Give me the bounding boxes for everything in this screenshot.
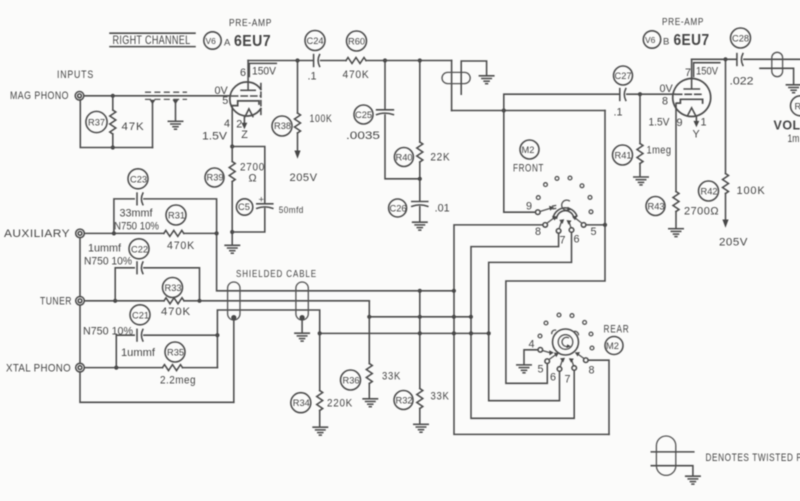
node C21 right: [215, 333, 219, 337]
capacitor C24 .1: [305, 31, 325, 83]
svg-text:R41: R41: [615, 151, 632, 161]
svg-text:33K: 33K: [382, 371, 401, 383]
resistor R42 100K to 205V: [699, 59, 766, 248]
label 1.5V pin9: [649, 117, 683, 130]
svg-text:7: 7: [565, 374, 571, 386]
tube V6A cathode: [232, 101, 259, 106]
svg-text:100K: 100K: [310, 113, 333, 125]
svg-text:5: 5: [538, 364, 544, 376]
switch M2 REAR label: [604, 324, 630, 355]
svg-text:R38: R38: [274, 121, 291, 131]
node FRONT-5: [603, 223, 607, 227]
svg-text:REAR: REAR: [604, 324, 630, 336]
switch M2 REAR terminal 7: [565, 358, 577, 385]
node tuner step: [367, 315, 371, 319]
ground (R41): [634, 177, 648, 185]
capacitor C23 33mmf: [114, 169, 217, 234]
svg-text:470K: 470K: [343, 69, 370, 81]
svg-text:C23: C23: [130, 174, 147, 184]
resistor R36 33K: [341, 317, 402, 399]
switch M2 REAR terminal 5: [538, 353, 560, 376]
wire REAR-4 to ground: [524, 350, 538, 365]
label pin6 150V: [240, 63, 277, 79]
wire REAR-8 riser: [588, 360, 609, 434]
svg-text:R36: R36: [343, 376, 360, 386]
node R37 bottom: [111, 145, 115, 149]
svg-text:AUXILIARY: AUXILIARY: [4, 228, 70, 240]
svg-text:2700Ω: 2700Ω: [684, 206, 719, 218]
svg-text:C26: C26: [390, 204, 407, 214]
svg-text:R37: R37: [88, 118, 105, 128]
label PRE-AMP (V6B): [643, 16, 709, 49]
svg-text:V6: V6: [645, 35, 656, 45]
wire C27 feed: [504, 94, 619, 212]
wire plate bus corner down: [451, 61, 453, 111]
ground (shielded cable B): [295, 333, 309, 341]
svg-text:DENOTES TWISTED P: DENOTES TWISTED P: [706, 452, 800, 464]
svg-text:C24: C24: [307, 36, 324, 46]
svg-text:R: R: [795, 102, 800, 112]
svg-text:C22: C22: [131, 244, 148, 254]
svg-text:22K: 22K: [430, 152, 450, 164]
resistor R35 2.2meg: [160, 342, 217, 387]
svg-text:C5: C5: [238, 202, 250, 212]
bus H2 tuner: [369, 301, 471, 317]
svg-text:R40: R40: [396, 153, 413, 163]
node H3/V1: [418, 331, 422, 335]
legend twisted pair symbol: [651, 436, 694, 476]
svg-text:A: A: [224, 38, 231, 49]
svg-text:9: 9: [526, 201, 532, 213]
svg-text:470K: 470K: [161, 306, 191, 318]
tube V6B grid (dashed): [676, 93, 702, 95]
switch M2 REAR contact ring: [538, 313, 594, 350]
node R39 top: [230, 144, 234, 148]
svg-text:.1: .1: [308, 71, 317, 83]
svg-text:TUNER: TUNER: [40, 296, 72, 308]
svg-text:Y: Y: [693, 129, 700, 141]
node C23 right: [215, 231, 219, 235]
tube V6B plate: [684, 59, 699, 89]
svg-text:V6: V6: [206, 36, 217, 46]
node C27 tap: [502, 108, 506, 112]
switch M2 FRONT label: [513, 140, 544, 175]
svg-text:N750 10%: N750 10%: [84, 255, 132, 267]
resistor R39 2700 ohm: [205, 147, 265, 246]
wire FRONT-6 to bus: [489, 233, 572, 401]
tube V6A triode envelope: [230, 82, 261, 116]
switch M2 FRONT contact ring: [536, 176, 593, 214]
svg-text:Z: Z: [241, 129, 248, 141]
svg-text:INPUTS: INPUTS: [57, 69, 94, 81]
svg-text:N750 10%: N750 10%: [83, 326, 133, 338]
wire MAG PHONO to grid: [84, 95, 230, 97]
resistor R33 470K: [161, 278, 369, 319]
svg-text:33mmf: 33mmf: [120, 208, 154, 220]
wire AUX line: [84, 232, 164, 234]
svg-text:.022: .022: [730, 76, 754, 88]
svg-text:R34: R34: [293, 398, 310, 408]
svg-text:R32: R32: [396, 396, 413, 406]
svg-text:MAG PHONO: MAG PHONO: [10, 90, 69, 102]
resistor R43 2700 ohm: [646, 192, 719, 229]
twisted pair indicator (C24 line): [442, 72, 470, 83]
node R40 top: [418, 58, 422, 62]
tube V6B triode envelope: [673, 79, 711, 117]
svg-text:C25: C25: [355, 110, 372, 120]
svg-text:8: 8: [662, 96, 668, 108]
svg-text:150V: 150V: [696, 66, 719, 78]
node H3 start R34: [318, 331, 322, 335]
node H3 end: [487, 331, 491, 335]
svg-text:.0035: .0035: [346, 130, 380, 142]
twisted pair indicator (C28 line): [772, 52, 783, 76]
ground (legend): [686, 476, 700, 484]
svg-text:7: 7: [685, 67, 691, 79]
node H3/V3: [469, 331, 473, 335]
svg-text:1: 1: [701, 117, 707, 129]
svg-text:B: B: [663, 37, 669, 48]
ground (cathode): [225, 245, 239, 253]
node R38: [295, 58, 299, 62]
svg-text:50mfd: 50mfd: [279, 205, 304, 216]
node H1/V1: [418, 289, 422, 293]
wire plate bus V6B: [692, 58, 736, 60]
tube V6B heater lead pin1 arrow: [694, 116, 700, 128]
wire C28 out: [744, 58, 800, 60]
wire cathode pin4 down: [231, 106, 233, 147]
wire FRONT-7 to bus: [471, 234, 574, 419]
svg-text:1.5V: 1.5V: [649, 117, 671, 129]
svg-text:0V: 0V: [660, 83, 674, 95]
node H2 end: [469, 315, 473, 319]
node R42/C28: [723, 57, 727, 61]
svg-text:4: 4: [224, 118, 230, 130]
node R41: [638, 92, 642, 96]
svg-text:+: +: [259, 195, 265, 206]
ground (R34): [313, 427, 327, 435]
input jack XTAL PHONO: [76, 363, 85, 372]
ground (R43): [669, 229, 683, 237]
capacitor C27 .1: [614, 66, 633, 119]
svg-text:6: 6: [550, 372, 556, 384]
svg-text:6EU7: 6EU7: [674, 32, 710, 49]
capacitor C26 .01: [389, 199, 450, 222]
ground (R36): [363, 399, 377, 407]
svg-text:VOLUM: VOLUM: [774, 119, 800, 133]
tube V6A plate: [241, 61, 255, 91]
resistor R34 220K: [291, 333, 353, 426]
svg-text:R42: R42: [701, 187, 718, 197]
wire FRONT-5: [586, 224, 605, 226]
switch M2 FRONT terminal 5: [572, 216, 596, 238]
switch M2 FRONT terminal 8: [535, 216, 557, 238]
bus H1 aux: [217, 233, 454, 290]
svg-text:C27: C27: [615, 71, 632, 81]
wire XTAL line: [84, 367, 162, 369]
node C22 right: [197, 299, 201, 303]
resistor R40 22K: [394, 61, 450, 202]
svg-text:1meg: 1meg: [647, 145, 672, 157]
node H2/V2: [452, 315, 456, 319]
ground (C28 shield): [786, 85, 800, 93]
input jack MAG PHONO: [75, 92, 84, 101]
wire shield stub: [461, 61, 486, 94]
svg-text:1ummf: 1ummf: [121, 347, 156, 359]
shielded cable indicator A: [228, 282, 240, 402]
node C25 tap: [383, 58, 387, 62]
svg-text:2.2meg: 2.2meg: [160, 375, 196, 387]
switch M2 REAR terminal 4: [529, 339, 554, 356]
svg-text:RIGHT CHANNEL: RIGHT CHANNEL: [113, 33, 191, 47]
switch M2 FRONT rotor: [552, 200, 577, 218]
svg-text:6EU7: 6EU7: [234, 33, 271, 50]
svg-text:R43: R43: [648, 202, 665, 212]
svg-text:Ω: Ω: [249, 173, 257, 185]
node C25/R40/C26: [418, 177, 422, 181]
wire shield stub (C28 line): [760, 68, 794, 84]
switch M2 FRONT terminal 6: [567, 220, 580, 245]
node H1 end: [452, 289, 456, 293]
node C22 left: [113, 299, 117, 303]
label pin4 pin2: [224, 118, 242, 131]
svg-text:33K: 33K: [431, 391, 450, 403]
svg-text:M2: M2: [606, 341, 619, 351]
svg-text:6: 6: [574, 234, 580, 246]
svg-text:4: 4: [529, 339, 535, 351]
svg-text:6: 6: [240, 67, 246, 79]
ground (input shield): [168, 121, 182, 129]
wire jack shell rail: [80, 100, 152, 148]
svg-text:N750 10%: N750 10%: [114, 221, 159, 233]
svg-text:205V: 205V: [290, 172, 318, 184]
bus H3 xtal: [217, 310, 488, 368]
title RIGHT CHANNEL: [110, 33, 195, 47]
wire cathode pin9 down: [675, 103, 677, 191]
resistor R38 100K to 205V: [272, 61, 333, 185]
wire jack shield chain: [80, 238, 234, 402]
svg-text:R31: R31: [168, 211, 185, 221]
ground (REAR-4): [517, 365, 531, 373]
wire shield drop to rail: [152, 102, 154, 148]
node H2/V1: [418, 315, 422, 319]
wire plate bus: [248, 60, 313, 62]
svg-text:150V: 150V: [252, 66, 277, 78]
svg-text:.01: .01: [435, 203, 450, 215]
wire M2 front right side down: [506, 111, 605, 384]
svg-text:100K: 100K: [737, 185, 766, 197]
svg-text:47K: 47K: [122, 121, 145, 133]
svg-text:R35: R35: [167, 348, 184, 358]
node R39 bottom: [230, 230, 234, 234]
node R37 top: [111, 94, 115, 98]
wire TUNER line: [84, 300, 164, 302]
wire shield drop to ground: [175, 102, 177, 121]
svg-text:R60: R60: [348, 37, 365, 47]
svg-text:R39: R39: [207, 173, 224, 183]
ground (R32): [414, 424, 428, 432]
switch M2 REAR terminal 6: [550, 358, 565, 384]
shield dashes over MAG PHONO wire: [145, 92, 187, 104]
label PRE-AMP (V6A): [204, 17, 272, 50]
volume control (cut off): [774, 96, 800, 145]
label 0V pin5: [215, 85, 229, 107]
switch M2 REAR body: [552, 329, 579, 355]
switch M2 REAR terminal 8: [575, 352, 595, 376]
tube V6A grid (dashed): [232, 95, 261, 97]
resistor R41 1meg: [613, 94, 672, 176]
resistor R37: [86, 96, 145, 148]
svg-text:1.5V: 1.5V: [202, 131, 228, 143]
node C23 left: [112, 231, 116, 235]
label 0V pin8: [660, 83, 674, 108]
resistor R31 470K: [164, 205, 217, 252]
node C21 left: [114, 366, 118, 370]
shielded cable indicator B: [296, 282, 308, 333]
svg-text:FRONT: FRONT: [513, 163, 544, 175]
svg-text:.1: .1: [614, 107, 623, 119]
svg-text:R33: R33: [165, 283, 182, 293]
svg-text:9: 9: [677, 117, 683, 129]
input jack AUXILIARY: [76, 229, 85, 238]
wire long feed to M2 front: [452, 110, 605, 112]
label pin7 150V: [685, 63, 720, 79]
svg-text:PRE-AMP: PRE-AMP: [662, 16, 704, 28]
resistor R60 470K: [321, 31, 452, 81]
ground (shield stub): [479, 76, 493, 84]
capacitor C28 .022: [730, 28, 754, 88]
capacitor C22 1ummf: [84, 239, 200, 301]
switch M2 FRONT terminal 9: [526, 201, 554, 215]
svg-text:8: 8: [535, 226, 541, 238]
svg-text:C28: C28: [732, 34, 749, 44]
svg-text:1m: 1m: [788, 133, 800, 145]
svg-text:5: 5: [222, 95, 228, 107]
node H3/V2: [452, 331, 456, 335]
tube V6B heater: [688, 108, 696, 116]
switch M2 FRONT terminal 7: [556, 219, 565, 246]
svg-text:220K: 220K: [327, 398, 353, 410]
wire FRONT-8 to bus: [454, 225, 609, 435]
svg-text:XTAL PHONO: XTAL PHONO: [6, 363, 71, 375]
ground (C26): [413, 222, 427, 230]
capacitor C25 .0035: [346, 61, 420, 179]
svg-text:7: 7: [560, 235, 566, 247]
wire C27 to grid V6B: [627, 93, 675, 95]
capacitor C5 50mfd: [232, 147, 304, 233]
svg-text:1ummf: 1ummf: [88, 242, 122, 254]
svg-text:205V: 205V: [719, 237, 748, 249]
svg-text:C21: C21: [132, 310, 149, 320]
svg-text:5: 5: [591, 226, 597, 238]
capacitor C21 1ummf: [83, 305, 217, 368]
tube V6B cathode: [677, 99, 703, 103]
svg-text:470K: 470K: [167, 240, 195, 252]
tube V6A heater lead pin2 arrow: [242, 118, 248, 130]
resistor R32 33K: [394, 291, 450, 424]
svg-text:M2: M2: [522, 145, 535, 155]
wire FRONT-9: [504, 211, 535, 213]
input jack TUNER: [76, 297, 85, 306]
svg-text:8: 8: [589, 365, 595, 377]
label pin1 Y: [693, 117, 707, 141]
svg-text:SHIELDED CABLE: SHIELDED CABLE: [236, 268, 317, 280]
svg-text:PRE-AMP: PRE-AMP: [229, 17, 272, 29]
tube V6A heater: [245, 109, 253, 117]
